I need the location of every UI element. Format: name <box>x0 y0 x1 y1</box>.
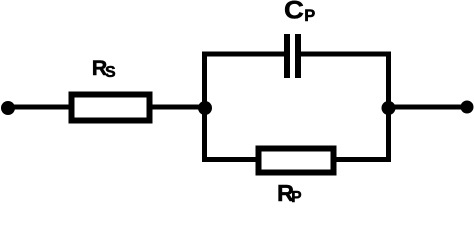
capacitor CP <box>284 34 301 78</box>
wire: bottom branch right segment <box>334 157 391 162</box>
label RP <box>277 180 302 206</box>
wire: node B vertical riser <box>386 54 391 160</box>
wire: node A vertical riser <box>202 54 207 160</box>
svg-text:S: S <box>105 64 116 81</box>
wire: bottom branch left segment <box>202 157 258 162</box>
wire: top branch right segment <box>297 52 391 57</box>
svg-text:P: P <box>304 7 315 25</box>
svg-text:C: C <box>284 0 304 24</box>
wire: top branch left segment <box>202 52 288 57</box>
node A junction <box>198 101 212 115</box>
label CP <box>284 0 315 25</box>
wire: left terminal to Rs <box>8 105 70 110</box>
svg-text:P: P <box>291 189 301 206</box>
label RS <box>92 56 116 81</box>
left terminal node <box>1 101 15 115</box>
node B junction <box>382 101 396 115</box>
resistor RP <box>259 149 334 173</box>
right terminal node <box>461 101 474 114</box>
resistor RS <box>72 95 150 121</box>
wire: Rs to node A <box>152 105 206 110</box>
wire: node B to right terminal <box>389 105 468 110</box>
